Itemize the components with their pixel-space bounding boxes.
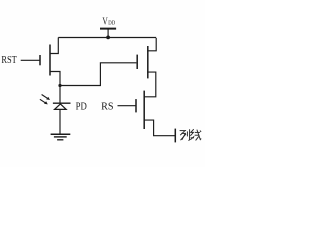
transistor M3 (row select) channel bar (143, 91, 145, 129)
transistor M1 (reset) gate bar (39, 55, 41, 65)
svg-text:RST: RST (1, 55, 17, 66)
junction dot VDD node on rail (106, 36, 110, 40)
列 right part (刂) (186, 131, 188, 136)
svg-text:PD: PD (76, 101, 87, 113)
wire node FD to M2 gate (60, 63, 136, 86)
wire node FD to photodiode cathode (59, 86, 61, 104)
power VDD terminal bar (100, 28, 116, 30)
线 right part (戋) (195, 131, 200, 133)
light arrow 1 into PD (42, 95, 50, 101)
wire RST gate lead (21, 59, 40, 61)
wire photodiode anode to ground (59, 109, 61, 133)
transistor M2 (source follower) gate bar (136, 55, 138, 69)
wire M2 source to M3 drain (144, 72, 156, 97)
light arrow 2 into PD (40, 99, 48, 104)
列 left part (歹) (180, 130, 187, 132)
wire M1 drain to VDD rail (50, 38, 58, 54)
wire M1 source to node FD (50, 72, 60, 86)
transistor M3 (row select) gate bar (135, 99, 137, 112)
线 left part (纟) (190, 129, 193, 136)
junction dot node FD (58, 84, 61, 87)
svg-text:V: V (102, 15, 107, 27)
label 列线 (column line), hand-drawn glyph strokes (180, 129, 202, 140)
svg-text:DD: DD (108, 20, 115, 26)
terminal tick of column line (174, 129, 176, 143)
ground symbol (51, 134, 71, 140)
wire VDD supply rail (58, 37, 156, 39)
photodiode PD symbol (53, 103, 71, 109)
wire M3 source to column line (144, 120, 175, 136)
wire M2 drain to VDD rail (148, 38, 156, 51)
wire VDD stem (107, 29, 109, 38)
label VDD supply (102, 15, 115, 27)
transistor M1 (reset) channel bar (49, 45, 51, 76)
wire RS gate lead (118, 105, 136, 107)
svg-text:RS: RS (101, 100, 113, 112)
transistor M2 (source follower) channel bar (147, 46, 149, 78)
